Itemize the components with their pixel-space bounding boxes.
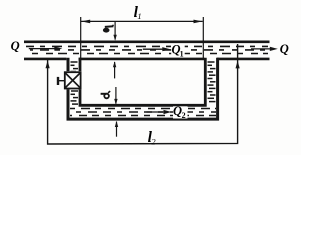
fluid dashes bottom pipe row 1: [70, 108, 216, 110]
fluid dashes main pipe row 1: [26, 45, 268, 47]
valve V1 X diagonal 1: [65, 73, 80, 88]
main pipe top wall: [24, 40, 270, 43]
valve V1 mask: [64, 71, 82, 89]
flow arrow Q1: [143, 48, 164, 50]
fluid dashes left branch: [71, 62, 79, 104]
dimension l1 left arrowhead: [81, 20, 90, 24]
dimension l1 left extension line: [80, 17, 82, 60]
valve V1 X diagonal 2: [65, 73, 80, 88]
dimension d1 top arrow line: [114, 21, 116, 39]
dimension l1 line: [81, 20, 203, 22]
label d2 (rotated): [101, 91, 111, 98]
svg-text:1: 1: [180, 49, 184, 58]
label Q1 background: [171, 45, 185, 57]
main pipe bottom wall middle segment: [79, 58, 205, 61]
flow arrow Q2: [147, 111, 166, 113]
dimension d1 bottom arrow line: [114, 62, 116, 78]
label d1 (rotated): [103, 25, 114, 33]
svg-text:Q: Q: [280, 42, 289, 56]
label Q2 background: [173, 106, 188, 118]
dimension l1 right arrowhead: [194, 20, 203, 24]
flow arrow Q inlet: [29, 48, 56, 50]
loop outer wall (left branch left wall, bottom pipe bottom wall, right branch right wall): [68, 58, 218, 119]
dimension d1 bottom arrowhead: [113, 61, 116, 67]
dimension d1 top arrowhead: [113, 35, 116, 41]
svg-text:1: 1: [137, 11, 141, 21]
dimension d2 bottom arrowhead: [115, 121, 118, 127]
dimension d2 top arrow line: [115, 87, 117, 104]
loop inner wall (left branch right wall, bottom pipe top wall, right branch left wall): [80, 58, 205, 106]
flow arrow Q outlet: [251, 48, 272, 50]
svg-text:Q: Q: [11, 39, 20, 53]
main pipe bottom wall right segment: [217, 58, 270, 61]
svg-text:2: 2: [182, 111, 186, 120]
dimension l2 left arrowhead: [46, 61, 50, 69]
dimension l1 right extension line: [202, 17, 204, 60]
svg-text:2: 2: [151, 137, 156, 147]
fluid dashes bottom pipe row 2: [70, 111, 216, 113]
label l2 background: [144, 134, 157, 143]
main pipe bottom wall left segment: [24, 58, 66, 61]
fluid dashes main pipe row 2: [30, 49, 268, 51]
fluid dashes main pipe row 3: [26, 53, 268, 55]
fluid dashes right branch: [208, 62, 216, 102]
dimension d2 top arrowhead: [114, 99, 117, 105]
valve V1 stem: [59, 80, 65, 82]
dimension d2 bottom arrow line: [116, 122, 118, 137]
dimension l2 bracket (left line, bottom line, right line): [48, 44, 238, 144]
valve V1 body: [65, 72, 81, 88]
dimension l2 right arrowhead: [236, 61, 240, 69]
fluid dashes bottom pipe row 3: [70, 115, 216, 117]
valve V1 handle bar: [57, 77, 59, 85]
